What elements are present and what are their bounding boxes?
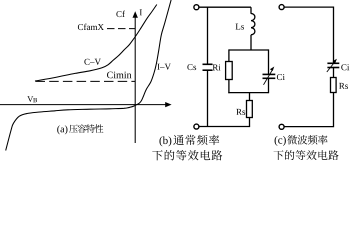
label CfamX <box>78 24 104 30</box>
caption (a) 压容特性 <box>57 124 103 134</box>
curve C-V <box>35 5 157 82</box>
wire b top <box>199 6 251 8</box>
wire Ls to parallel <box>250 35 252 50</box>
curve I-V <box>6 0 171 151</box>
caption (b) 下的等效电路 line 2 <box>152 150 222 160</box>
vertical axis Cf/I <box>133 11 138 143</box>
wire Ci-c to Rs-c <box>333 68 335 78</box>
caption (c) 微波频率 line 1 <box>275 135 328 146</box>
label Cf <box>116 11 125 17</box>
varactor capacitor Ci (c) <box>327 63 339 67</box>
wire junction to Rs (b) <box>249 93 251 101</box>
label I-V <box>157 64 171 70</box>
label Ri <box>213 64 221 70</box>
horizontal axis V <box>0 102 172 107</box>
inductor Ls <box>251 14 255 35</box>
label Rs (b) <box>236 109 245 115</box>
label C-V <box>84 59 101 65</box>
varactor arrow Ci (b) <box>264 67 275 85</box>
wire Ci-b branch upper <box>268 49 270 74</box>
wire c top <box>284 7 333 63</box>
resistor Rs (c) <box>331 78 337 93</box>
wire Ci-b branch lower <box>268 78 270 93</box>
wire b bottom <box>199 126 250 128</box>
wire Cs branch upper <box>207 7 209 64</box>
wire Cs branch lower <box>207 70 209 126</box>
label Rs (c) <box>339 83 348 89</box>
dashed level line CfamX <box>107 28 135 30</box>
label Ls <box>236 24 244 30</box>
dashed level line Cimin <box>36 80 136 82</box>
varactor arrow Ci (c) <box>327 59 337 72</box>
wire parallel bottom rail <box>228 92 268 94</box>
caption (b) 通常频率 line 1 <box>159 135 219 147</box>
label Cs <box>187 64 196 70</box>
capacitor Cs <box>203 64 213 70</box>
varactor capacitor Ci (b) <box>263 74 276 78</box>
label VB <box>27 96 33 102</box>
wire Ri branch upper <box>228 49 230 61</box>
terminal c-bottom-left <box>279 124 284 129</box>
resistor Rs (b) <box>247 101 253 118</box>
wire Ls branch upper <box>250 7 252 14</box>
wire parallel top rail <box>229 49 269 51</box>
label Ci (c) <box>341 64 349 70</box>
label I (current axis) <box>140 9 142 15</box>
label Cimin <box>107 72 131 79</box>
terminal b-top-left <box>194 5 199 10</box>
label Ci (b) <box>277 74 285 80</box>
caption (c) 下的等效电路 line 2 <box>274 150 339 160</box>
terminal b-bottom-left <box>194 124 199 129</box>
terminal c-top-left <box>279 5 284 10</box>
wire c bottom right <box>284 93 333 127</box>
resistor Ri <box>226 62 233 80</box>
wire Rs-b lower <box>249 118 251 127</box>
wire Ri branch lower <box>228 80 230 94</box>
